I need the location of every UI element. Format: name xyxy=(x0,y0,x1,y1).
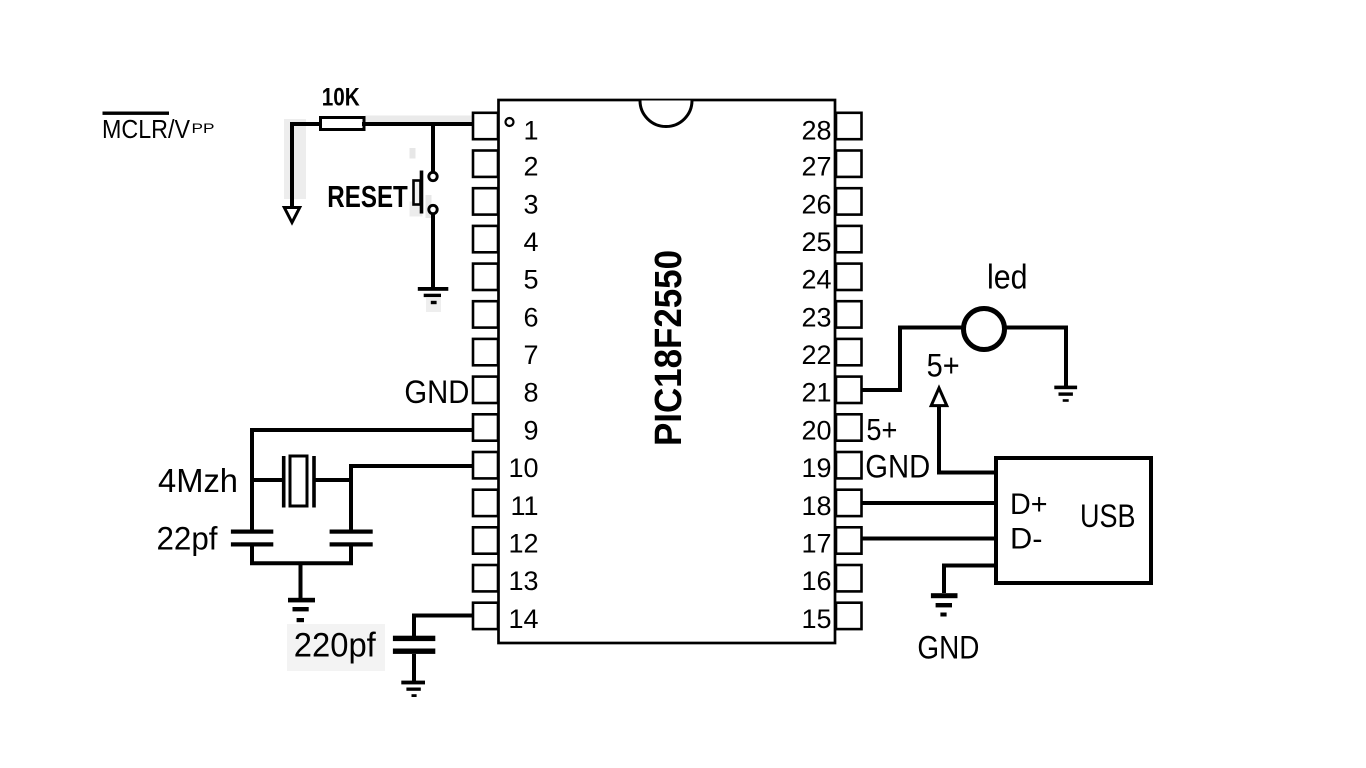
wire: below left cap xyxy=(250,547,254,566)
ground below USB xyxy=(931,593,958,616)
svg-text:RESET: RESET xyxy=(327,179,408,214)
pin 19 square + number xyxy=(801,452,861,483)
svg-text:22pf: 22pf xyxy=(157,521,218,557)
svg-text:6: 6 xyxy=(523,302,538,332)
svg-text:GND: GND xyxy=(917,630,979,666)
wire: left crystal branch vertical xyxy=(250,428,254,531)
wire: middle down to ground xyxy=(299,563,303,598)
ground below 220pf xyxy=(401,681,425,697)
wire: bottom joining horizontal xyxy=(250,561,353,565)
svg-text:GND: GND xyxy=(404,374,469,410)
pin 23 square + number xyxy=(801,301,861,332)
svg-text:19: 19 xyxy=(801,453,831,483)
pin 17 square + number xyxy=(801,527,861,558)
wire: to led left side xyxy=(898,326,963,330)
svg-text:D-: D- xyxy=(1010,522,1043,555)
ghost shading left of MCLR pull-down wire xyxy=(284,119,306,199)
svg-text:12: 12 xyxy=(508,528,538,558)
svg-text:15: 15 xyxy=(801,604,831,634)
svg-text:18: 18 xyxy=(801,491,831,521)
svg-text:220pf: 220pf xyxy=(294,627,377,665)
wire: pin 21 horizontal xyxy=(861,388,902,392)
ghost shading around RESET button xyxy=(410,148,442,312)
svg-text:21: 21 xyxy=(801,378,831,408)
pin 3 square + number xyxy=(473,188,539,219)
svg-text:PP: PP xyxy=(192,121,215,136)
pin 24 square + number xyxy=(801,264,861,295)
svg-text:8: 8 xyxy=(523,378,538,408)
svg-text:3: 3 xyxy=(523,189,538,219)
svg-text:28: 28 xyxy=(801,116,831,146)
ground below RESET switch xyxy=(418,287,449,304)
pin 1 dot xyxy=(506,118,514,126)
pin 13 square + number xyxy=(473,565,539,596)
svg-text:17: 17 xyxy=(801,528,831,558)
pin 25 square + number xyxy=(801,226,861,257)
capacitor C1 22pf (left) xyxy=(231,530,273,547)
resistor R1 body xyxy=(321,118,365,130)
svg-text:4Mzh: 4Mzh xyxy=(158,462,238,499)
pin 21 square + number xyxy=(801,377,861,408)
svg-text:5+: 5+ xyxy=(866,412,897,447)
capacitor C3 220pf xyxy=(393,636,435,654)
pin 4 square + number xyxy=(473,226,539,257)
svg-text:GND: GND xyxy=(865,448,930,484)
pin 6 square + number xyxy=(473,301,539,332)
pin 12 square + number xyxy=(473,527,539,558)
svg-text:1: 1 xyxy=(523,116,538,146)
wire: right crystal branch vertical xyxy=(349,464,353,531)
pin 8 square + number xyxy=(473,377,539,408)
wire: below right cap xyxy=(349,547,353,566)
pin 27 square + number xyxy=(801,151,861,182)
svg-text:USB: USB xyxy=(1080,498,1136,534)
svg-text:13: 13 xyxy=(508,566,538,596)
ground below crystal caps xyxy=(288,598,315,622)
ground below led xyxy=(1054,386,1077,402)
pushbutton RESET (switch body) xyxy=(414,171,438,214)
wire: down to led ground xyxy=(1064,328,1068,387)
svg-text:5: 5 xyxy=(523,265,538,295)
pin 7 square + number xyxy=(473,339,539,370)
svg-text:20: 20 xyxy=(801,415,831,445)
wire: up to led level xyxy=(898,326,902,393)
label MCLR/VPP xyxy=(102,112,215,145)
wire: pin 14 horizontal xyxy=(412,614,474,618)
wire: crystal right electrode to right branch xyxy=(314,478,351,482)
pin 26 square + number xyxy=(801,188,861,219)
wire: resistor to pin 1 xyxy=(362,122,474,126)
svg-text:9: 9 xyxy=(523,415,538,445)
svg-text:MCLR/V: MCLR/V xyxy=(102,114,191,144)
svg-text:10K: 10K xyxy=(322,84,360,112)
svg-text:24: 24 xyxy=(801,265,831,295)
wire: left vertical from resistor node down xyxy=(290,122,294,208)
wire: switch bottom contact to ground xyxy=(431,214,435,288)
ghost shading behind 220pf label xyxy=(287,624,385,671)
pin 1 square + number xyxy=(473,113,539,146)
ground arrow (open triangle) under pull-down xyxy=(284,208,299,223)
pin 28 square + number xyxy=(801,113,861,146)
wire: down to 220pf cap xyxy=(412,614,416,637)
svg-text:D+: D+ xyxy=(1010,488,1048,521)
5V supply arrow (open, up) xyxy=(931,388,947,406)
wire: USB ground horizontal xyxy=(944,564,996,568)
capacitor C2 22pf (right) xyxy=(330,530,373,547)
svg-text:5+: 5+ xyxy=(927,348,960,384)
wire: USB ground vertical xyxy=(942,564,946,594)
pin 2 square + number xyxy=(473,151,539,182)
crystal X1 4MHz xyxy=(284,456,314,508)
pin 22 square + number xyxy=(801,339,861,370)
pin 11 square + number xyxy=(473,490,539,521)
wire: pin 18 to USB D+ xyxy=(862,501,997,505)
pin 15 square + number xyxy=(801,603,861,634)
wire: led right side xyxy=(1005,326,1068,330)
pin 18 square + number xyxy=(801,490,861,521)
pin 10 square + number xyxy=(473,452,539,483)
USB box xyxy=(996,458,1151,583)
pin 9 square + number xyxy=(473,414,539,445)
IC U1 body PIC18F2550 xyxy=(499,100,836,643)
svg-text:27: 27 xyxy=(801,152,831,182)
wire: node horizontal to resistor xyxy=(290,122,322,126)
wire: branch to crystal left electrode xyxy=(250,478,284,482)
led D1 (circle) xyxy=(964,309,1005,350)
svg-text:26: 26 xyxy=(801,189,831,219)
wire: right branch to pin 10 xyxy=(349,464,474,468)
svg-text:4: 4 xyxy=(523,227,538,257)
wire: pin 9 to crystal branch xyxy=(250,428,474,432)
wire: arrow stem down xyxy=(937,406,941,475)
svg-text:led: led xyxy=(987,259,1028,297)
pin 14 square + number xyxy=(473,603,539,634)
svg-text:23: 23 xyxy=(801,302,831,332)
svg-text:22: 22 xyxy=(801,340,831,370)
svg-text:25: 25 xyxy=(801,227,831,257)
wire: junction down to switch top contact xyxy=(431,124,435,172)
IC notch (top index) xyxy=(640,101,692,127)
svg-text:14: 14 xyxy=(508,604,538,634)
pin 5 square + number xyxy=(473,264,539,295)
svg-text:16: 16 xyxy=(801,566,831,596)
pin 20 square + number xyxy=(801,414,861,445)
wire: to USB box (5V) xyxy=(939,471,996,475)
svg-text:10: 10 xyxy=(508,453,538,483)
svg-text:11: 11 xyxy=(510,491,538,521)
svg-text:2: 2 xyxy=(523,152,538,182)
svg-text:PIC18F2550: PIC18F2550 xyxy=(648,250,690,446)
wire: below 220pf cap xyxy=(412,654,416,681)
wire: pin 17 to USB D- xyxy=(862,537,997,541)
pin 16 square + number xyxy=(801,565,861,596)
ghost shading above wire to pin 1 xyxy=(365,116,477,123)
svg-text:7: 7 xyxy=(523,340,538,370)
